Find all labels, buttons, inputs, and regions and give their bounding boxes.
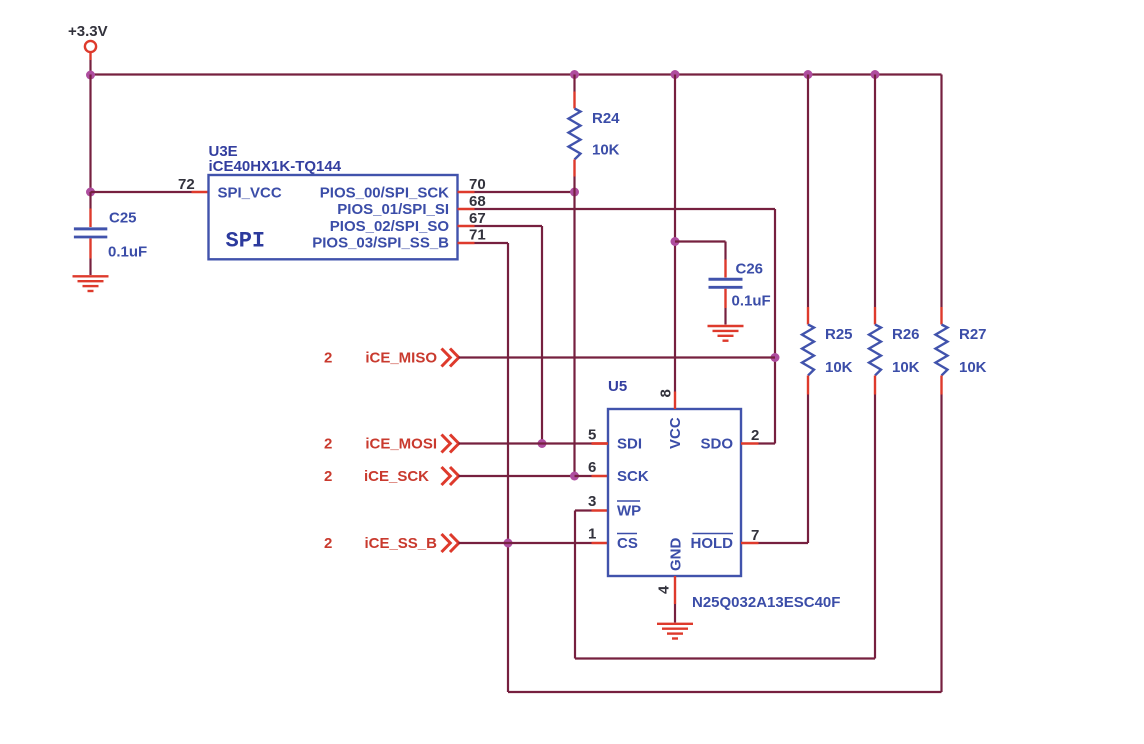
U5 pin name WP (overline)	[617, 501, 641, 520]
U5 pin name HOLD (overline)	[691, 534, 734, 553]
U5 pin 5 stub	[592, 442, 609, 444]
svg-text:VCC: VCC	[667, 417, 684, 449]
ground below C26	[708, 326, 744, 341]
wire R25 to HOLD horizontal	[759, 542, 809, 544]
svg-text:7: 7	[751, 527, 759, 544]
svg-text:68: 68	[469, 193, 486, 210]
svg-text:PIOS_00/SPI_SCK: PIOS_00/SPI_SCK	[320, 184, 449, 201]
wire top +3.3V rail	[91, 73, 942, 75]
junction C26 tap	[671, 237, 680, 246]
wire C26 tap vertical	[724, 242, 726, 260]
U5 GND pin stub	[674, 576, 676, 604]
svg-text:WP: WP	[617, 503, 641, 520]
svg-text:HOLD: HOLD	[691, 535, 734, 552]
svg-text:10K: 10K	[892, 359, 920, 376]
svg-text:C25: C25	[109, 210, 137, 227]
pin 72 stub	[192, 191, 210, 193]
wire rail to R25	[807, 75, 809, 308]
svg-text:GND: GND	[668, 538, 685, 572]
resistor R27	[936, 307, 948, 395]
svg-text:6: 6	[588, 459, 596, 476]
wire iCE_MOSI	[459, 442, 592, 444]
wire pin 70 to R24	[475, 191, 575, 193]
svg-text:R27: R27	[959, 326, 987, 343]
wire VCC vertical	[674, 75, 676, 392]
wire R24 to SCK junction	[573, 192, 575, 476]
svg-text:SPI: SPI	[226, 229, 266, 254]
svg-text:iCE_MISO: iCE_MISO	[365, 350, 437, 367]
wire R27 down	[940, 395, 942, 693]
svg-text:iCE_MOSI: iCE_MOSI	[365, 436, 437, 453]
wire iCE_MISO	[459, 356, 776, 358]
U5 VCC pin stub	[674, 392, 676, 410]
wire rail corner to R27	[940, 75, 942, 308]
junction MOSI/SDI	[538, 439, 547, 448]
svg-text:SPI_VCC: SPI_VCC	[218, 184, 282, 201]
wire iCE_SCK	[459, 475, 575, 477]
wire R25 to HOLD vertical	[807, 395, 809, 544]
off-page connector iCE_SS_B	[324, 534, 459, 552]
svg-text:SDI: SDI	[617, 436, 642, 453]
svg-text:71: 71	[469, 227, 486, 244]
IC U3E box	[209, 175, 458, 259]
svg-text:0.1uF: 0.1uF	[108, 244, 147, 261]
CS pin stub	[592, 542, 609, 544]
junction rail VCC	[671, 70, 680, 79]
SDI pin stub	[592, 442, 609, 444]
off-page connector iCE_SCK	[324, 467, 459, 485]
pin 70 stub	[458, 191, 475, 193]
svg-text:N25Q032A13ESC40F: N25Q032A13ESC40F	[692, 594, 840, 611]
capacitor C26	[709, 260, 743, 325]
wire rail to R26	[874, 75, 876, 308]
wire R27 bottom horizontal	[508, 691, 942, 693]
ground below U5	[657, 624, 693, 639]
wire pin 68 vertical to SDO	[774, 209, 776, 444]
wire R26 down	[874, 395, 876, 659]
pin 71 stub	[458, 242, 475, 244]
svg-text:2: 2	[324, 350, 332, 367]
junction R24/pin70	[570, 188, 579, 197]
svg-text:5: 5	[588, 427, 596, 444]
off-page connector iCE_MISO	[324, 349, 459, 367]
svg-text:CS: CS	[617, 535, 638, 552]
junction top-left	[86, 71, 95, 80]
resistor R25	[802, 307, 814, 395]
svg-text:70: 70	[469, 176, 486, 193]
svg-text:2: 2	[324, 468, 332, 485]
wire pin 67 horizontal	[475, 225, 543, 227]
svg-text:R26: R26	[892, 326, 920, 343]
svg-text:R25: R25	[825, 326, 853, 343]
junction SPI_VCC/C25	[86, 188, 95, 197]
svg-text:U5: U5	[608, 378, 627, 395]
svg-text:72: 72	[178, 176, 195, 193]
svg-text:2: 2	[324, 436, 332, 453]
svg-text:PIOS_03/SPI_SS_B: PIOS_03/SPI_SS_B	[312, 235, 449, 252]
capacitor C25	[74, 192, 107, 275]
svg-text:67: 67	[469, 210, 486, 227]
U5 HOLD pin stub	[741, 542, 759, 544]
svg-text:SDO: SDO	[700, 436, 733, 453]
svg-text:iCE_SCK: iCE_SCK	[364, 468, 429, 485]
junction rail R24	[570, 70, 579, 79]
wire WP vertical	[574, 511, 576, 659]
resistor R26	[869, 307, 881, 395]
svg-text:10K: 10K	[592, 142, 620, 159]
svg-text:1: 1	[588, 526, 596, 543]
junction rail R25	[804, 70, 813, 79]
wire pin 67 vertical to SDI	[541, 226, 543, 444]
wire left vertical to SPI_VCC	[89, 75, 91, 193]
svg-text:2: 2	[751, 427, 759, 444]
power flag +3.3V	[68, 23, 108, 60]
wire SCK junction to pin	[575, 475, 592, 477]
pin 68 stub	[458, 208, 475, 210]
svg-text:10K: 10K	[825, 359, 853, 376]
svg-text:4: 4	[656, 585, 673, 594]
pin 67 stub	[458, 225, 475, 227]
svg-text:2: 2	[324, 535, 332, 552]
svg-text:PIOS_01/SPI_SI: PIOS_01/SPI_SI	[337, 201, 449, 218]
wire SDO lead	[759, 442, 776, 444]
junction MISO	[771, 353, 780, 362]
U5 SDO pin stub	[741, 442, 759, 444]
svg-text:0.1uF: 0.1uF	[732, 293, 771, 310]
IC U5 box	[608, 409, 741, 576]
svg-text:iCE40HX1K-TQ144: iCE40HX1K-TQ144	[209, 158, 342, 175]
wire R26 bottom horizontal to WP	[575, 657, 875, 659]
svg-text:iCE_SS_B: iCE_SS_B	[364, 535, 437, 552]
wire iCE_SS_B	[459, 542, 592, 544]
SCK pin stub	[592, 475, 609, 477]
wire pin 68 horizontal	[475, 208, 776, 210]
wire pin 71 vertical	[507, 243, 509, 692]
svg-text:SCK: SCK	[617, 468, 649, 485]
wire pin 71 horizontal	[475, 242, 509, 244]
wire +3.3V flag to top rail	[89, 60, 91, 75]
wire SPI_VCC pin 72	[91, 191, 192, 193]
wire C26 tap horizontal	[675, 240, 726, 242]
svg-text:8: 8	[658, 389, 675, 397]
junction SCK	[570, 472, 579, 481]
svg-text:10K: 10K	[959, 359, 987, 376]
WP pin stub	[592, 509, 609, 511]
ground below C25	[73, 276, 109, 291]
svg-text:R24: R24	[592, 110, 620, 127]
wire WP horizontal	[575, 509, 592, 511]
wire GND stub to ground	[674, 604, 676, 623]
svg-text:C26: C26	[736, 261, 764, 278]
svg-text:+3.3V: +3.3V	[68, 23, 108, 40]
svg-text:PIOS_02/SPI_SO: PIOS_02/SPI_SO	[330, 218, 450, 235]
resistor R24	[569, 75, 581, 193]
junction SS_B	[504, 539, 513, 548]
off-page connector iCE_MOSI	[324, 435, 459, 453]
U5 pin name CS (overline)	[617, 534, 638, 553]
junction rail R26	[871, 70, 880, 79]
svg-text:3: 3	[588, 493, 596, 510]
